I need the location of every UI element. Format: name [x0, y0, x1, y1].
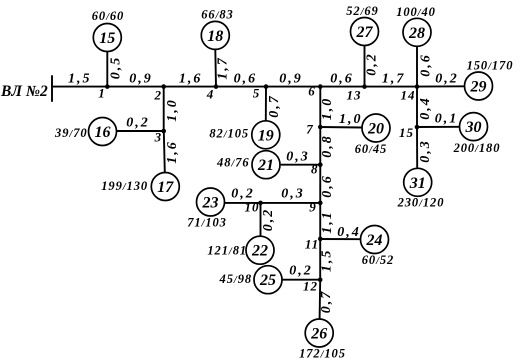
svg-text:15: 15	[399, 125, 414, 140]
svg-text:23: 23	[202, 195, 219, 212]
svg-text:1,5: 1,5	[68, 72, 92, 87]
node 5	[264, 84, 269, 89]
wire 15-30	[417, 126, 460, 128]
wire 6-12 trunk	[319, 87, 321, 280]
svg-text:60/60: 60/60	[92, 9, 124, 23]
node 4	[214, 84, 219, 89]
svg-text:121/81: 121/81	[207, 244, 247, 258]
wire 13-27	[364, 46, 366, 87]
svg-text:27: 27	[356, 24, 374, 41]
wire 3-17	[164, 131, 165, 173]
wire 10-22	[260, 203, 262, 236]
svg-text:0,2: 0,2	[435, 72, 459, 87]
svg-text:200/180: 200/180	[453, 141, 501, 155]
node 1	[105, 84, 110, 89]
svg-text:1,1: 1,1	[320, 210, 335, 234]
svg-text:66/83: 66/83	[201, 7, 233, 21]
svg-text:172/105: 172/105	[299, 347, 346, 361]
svg-text:31: 31	[409, 175, 426, 192]
svg-text:11: 11	[305, 237, 319, 252]
svg-text:12: 12	[303, 279, 318, 294]
wire 14-28	[416, 46, 418, 86]
wire 5-19	[265, 87, 267, 121]
svg-text:199/130: 199/130	[101, 179, 148, 193]
svg-text:22: 22	[251, 243, 268, 260]
svg-text:6: 6	[308, 84, 316, 99]
svg-text:0,1: 0,1	[435, 112, 459, 127]
svg-text:0,6: 0,6	[320, 174, 335, 198]
svg-text:0,9: 0,9	[279, 72, 303, 87]
svg-text:28: 28	[408, 25, 425, 42]
svg-text:1,7: 1,7	[216, 56, 231, 80]
svg-text:1,7: 1,7	[382, 72, 406, 87]
svg-text:60/52: 60/52	[362, 253, 394, 267]
node 10	[258, 201, 263, 206]
wire 11-24	[320, 238, 360, 240]
svg-text:17: 17	[157, 179, 174, 196]
svg-text:0,3: 0,3	[286, 150, 310, 165]
svg-text:0,5: 0,5	[109, 56, 124, 80]
load circle 19	[252, 121, 280, 149]
svg-text:0,7: 0,7	[319, 290, 334, 314]
svg-text:0,4: 0,4	[418, 96, 433, 120]
wire 12-25	[282, 279, 321, 281]
svg-text:1,6: 1,6	[165, 140, 180, 164]
node 9	[318, 201, 323, 206]
load circle 17	[151, 173, 179, 201]
svg-text:0,2: 0,2	[365, 52, 380, 76]
svg-text:71/103: 71/103	[187, 216, 227, 230]
load circle 29	[465, 72, 493, 100]
node 14	[415, 84, 420, 89]
svg-text:16: 16	[95, 124, 111, 141]
node 2	[161, 84, 166, 89]
svg-text:0,2: 0,2	[231, 187, 255, 202]
svg-text:24: 24	[366, 232, 383, 249]
load circle 18	[201, 21, 229, 49]
load circle 30	[460, 113, 488, 141]
svg-text:5: 5	[253, 86, 261, 101]
wire 10-23	[225, 202, 261, 204]
svg-text:1,0: 1,0	[339, 112, 363, 127]
svg-text:7: 7	[306, 122, 314, 137]
svg-text:ВЛ №2: ВЛ №2	[0, 83, 48, 100]
svg-text:82/105: 82/105	[209, 127, 249, 141]
svg-text:0,7: 0,7	[267, 94, 282, 118]
svg-text:100/40: 100/40	[396, 5, 436, 19]
svg-text:150/170: 150/170	[467, 58, 514, 72]
svg-text:26: 26	[310, 326, 327, 343]
load circle 22	[246, 236, 274, 264]
load circle 16	[89, 118, 117, 146]
svg-text:39/70: 39/70	[54, 126, 87, 140]
svg-text:8: 8	[311, 162, 319, 177]
svg-text:230/120: 230/120	[397, 195, 445, 209]
svg-text:14: 14	[401, 88, 416, 103]
load circle 27	[351, 18, 379, 46]
svg-text:3: 3	[154, 130, 163, 145]
wire 4-18	[214, 50, 217, 87]
svg-text:0,9: 0,9	[129, 72, 153, 87]
svg-text:52/69: 52/69	[346, 4, 378, 18]
wire 8-21	[281, 164, 321, 166]
wire main line 0-14	[52, 86, 417, 88]
svg-text:25: 25	[259, 272, 276, 289]
load circle 28	[403, 18, 431, 46]
svg-text:4: 4	[206, 87, 215, 102]
svg-text:19: 19	[258, 127, 274, 144]
node 15	[415, 125, 420, 130]
svg-text:0,2: 0,2	[126, 116, 150, 131]
wire 1-15	[106, 52, 108, 87]
load circle 15	[93, 24, 121, 52]
svg-text:18: 18	[207, 28, 223, 45]
wire 14-29	[417, 85, 465, 87]
load circle 31	[404, 168, 432, 196]
wire 15-31	[416, 127, 418, 168]
wire 9-10	[261, 202, 321, 204]
svg-text:0,4: 0,4	[337, 225, 361, 240]
svg-text:0,2: 0,2	[289, 264, 313, 279]
svg-text:0,3: 0,3	[418, 139, 433, 163]
wire 7-20	[320, 126, 362, 129]
svg-text:1,6: 1,6	[179, 72, 203, 87]
node 11	[318, 237, 323, 242]
svg-text:1,0: 1,0	[165, 98, 180, 122]
svg-text:29: 29	[470, 78, 487, 95]
svg-text:0,6: 0,6	[419, 53, 434, 77]
svg-text:20: 20	[367, 121, 384, 138]
svg-text:21: 21	[257, 157, 274, 174]
svg-text:30: 30	[465, 119, 482, 136]
node 13	[362, 84, 367, 89]
wire 3-16	[117, 130, 164, 132]
svg-text:0,3: 0,3	[281, 187, 305, 202]
svg-text:1,0: 1,0	[320, 97, 335, 121]
svg-text:2: 2	[154, 88, 163, 103]
svg-text:15: 15	[99, 30, 115, 47]
svg-text:9: 9	[309, 200, 317, 215]
load circle 21	[252, 151, 280, 179]
svg-text:0,6: 0,6	[234, 72, 258, 87]
svg-text:10: 10	[245, 200, 260, 215]
node 3	[161, 129, 166, 134]
load circle 20	[362, 114, 390, 142]
svg-text:48/76: 48/76	[216, 156, 249, 170]
wire 12-26	[319, 280, 322, 319]
wire 2-3	[163, 87, 165, 131]
svg-text:60/45: 60/45	[355, 142, 387, 156]
svg-text:0,8: 0,8	[320, 134, 335, 158]
wire 14-15	[416, 87, 418, 127]
svg-text:13: 13	[347, 88, 362, 103]
source bus bar	[51, 75, 53, 102]
svg-text:0,2: 0,2	[261, 208, 276, 232]
load circle 26	[305, 319, 333, 347]
svg-text:1,5: 1,5	[320, 249, 335, 273]
node 8	[318, 162, 323, 167]
svg-text:0,6: 0,6	[330, 72, 354, 87]
load circle 24	[361, 226, 389, 254]
load circle 23	[197, 188, 225, 216]
node 12	[318, 277, 323, 282]
load circle 25	[254, 266, 282, 294]
svg-text:45/98: 45/98	[219, 272, 252, 286]
svg-text:1: 1	[98, 86, 106, 101]
node 6	[318, 84, 323, 89]
node 7	[318, 125, 323, 130]
